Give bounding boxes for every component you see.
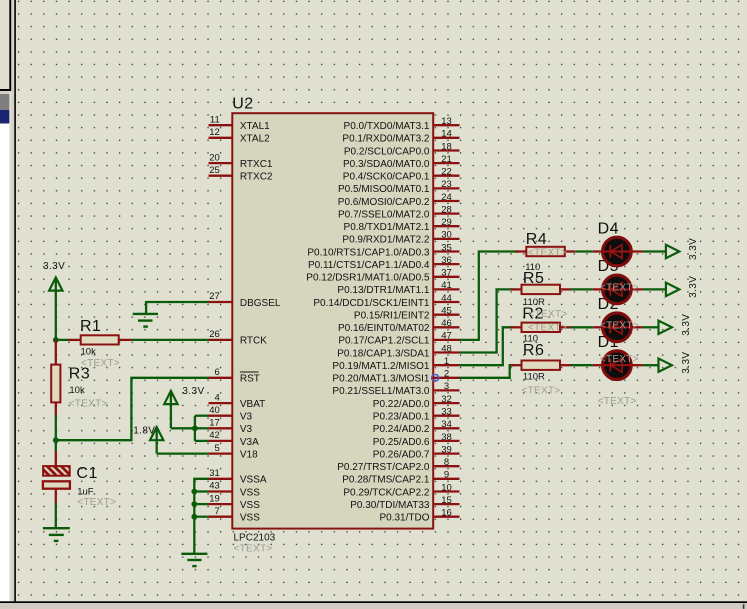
svg-text:28: 28	[441, 204, 452, 215]
pin 42 (V3A) stub	[209, 440, 233, 442]
window chrome: resize tick	[743, 604, 745, 609]
svg-text:P0.8/TXD1/MAT2.1: P0.8/TXD1/MAT2.1	[344, 222, 430, 233]
LED D2	[593, 326, 602, 328]
wire pin to R6	[460, 365, 514, 378]
svg-text:36: 36	[441, 255, 452, 266]
svg-text:47: 47	[441, 331, 452, 342]
wire pin to R2	[460, 327, 514, 365]
svg-text:P0.10/RTS1/CAP1.0/AD0.3: P0.10/RTS1/CAP1.0/AD0.3	[307, 247, 430, 258]
pin 37 (P0.12/DSR1/MAT1.0/AD0.5) stub	[433, 276, 459, 278]
node marker (blue) on pin 2	[432, 375, 439, 382]
svg-text:46: 46	[441, 318, 452, 329]
svg-text:<TEXT>: <TEXT>	[234, 544, 273, 555]
svg-text:19: 19	[209, 493, 220, 504]
svg-text:R3: R3	[69, 365, 90, 382]
svg-text:V18: V18	[240, 449, 258, 460]
svg-text:XTAL2: XTAL2	[240, 134, 270, 145]
svg-text:U2: U2	[232, 95, 253, 112]
svg-text:P0.25/AD0.6: P0.25/AD0.6	[373, 437, 430, 448]
wire LED to power	[643, 288, 666, 290]
window chrome: bottom bar	[0, 601, 747, 603]
svg-text:23: 23	[441, 179, 452, 190]
pin 12 (XTAL2) stub	[209, 137, 233, 139]
node junction VSS 19	[191, 501, 197, 507]
resistor R3	[55, 340, 57, 365]
svg-text:29: 29	[441, 217, 452, 228]
svg-text:P0.7/SSEL0/MAT2.0: P0.7/SSEL0/MAT2.0	[338, 209, 430, 220]
window chrome: left panel	[0, 0, 11, 89]
svg-text:P0.28/TMS/CAP2.1: P0.28/TMS/CAP2.1	[342, 475, 430, 486]
node junction R1/R3/3.3V	[53, 337, 59, 343]
svg-text:3.3V: 3.3V	[681, 314, 692, 336]
svg-text:<TEXT>: <TEXT>	[69, 399, 108, 410]
pin 8 (P0.27/TRST/CAP2.0) stub	[433, 465, 459, 467]
svg-text:R6: R6	[523, 342, 544, 359]
svg-text:44: 44	[441, 293, 452, 304]
svg-text:VBAT: VBAT	[240, 399, 265, 410]
svg-text:P0.20/MAT1.3/MOSI1: P0.20/MAT1.3/MOSI1	[332, 374, 430, 385]
svg-text:40: 40	[209, 405, 220, 416]
power +3.3V terminal (arrow)	[666, 245, 679, 258]
IC U2 LPC2103 body	[232, 113, 433, 528]
pin 39 (P0.26/AD0.7) stub	[433, 452, 459, 454]
pin 26 (RTCK) stub	[209, 339, 233, 341]
svg-text:<TEXT>: <TEXT>	[529, 309, 568, 320]
svg-text:V3A: V3A	[240, 437, 259, 448]
svg-text:42: 42	[209, 430, 220, 441]
LED D4	[593, 250, 602, 252]
svg-text:RTCK: RTCK	[240, 336, 267, 347]
pin 30 (P0.9/RXD1/MAT2.2) stub	[433, 238, 459, 240]
svg-text:3.3V: 3.3V	[688, 238, 699, 260]
svg-text:P0.6/MOSI0/CAP0.2: P0.6/MOSI0/CAP0.2	[338, 197, 430, 208]
svg-text:<TEXT>: <TEXT>	[600, 283, 639, 294]
resistor R2	[511, 326, 522, 328]
svg-text:DBGSEL: DBGSEL	[240, 298, 281, 309]
svg-text:1: 1	[444, 356, 449, 367]
pin 20 (RTXC1) stub	[209, 162, 233, 164]
resistor R1	[56, 339, 68, 341]
svg-text:P0.24/AD0.2: P0.24/AD0.2	[373, 424, 430, 435]
wire R4 to LED	[575, 250, 593, 252]
pin 23 (P0.5/MISO0/MAT0.1) stub	[433, 187, 459, 189]
pin 40 (V3) stub	[209, 415, 233, 417]
resistor R6	[511, 364, 522, 366]
svg-text:22: 22	[441, 167, 452, 178]
pin 25 (RTXC2) stub	[209, 175, 233, 177]
svg-text:27: 27	[209, 291, 220, 302]
LED D5	[593, 288, 602, 290]
svg-text:45: 45	[441, 306, 452, 317]
pin 32 (P0.22/AD0.0) stub	[433, 402, 459, 404]
pin 21 (P0.3/SDA0/MAT0.0) stub	[433, 162, 459, 164]
svg-text:41: 41	[441, 280, 452, 291]
svg-text:15: 15	[441, 495, 452, 506]
node junction V3 rail	[192, 425, 198, 431]
pin 13 (P0.0/TXD0/MAT3.1) stub	[433, 124, 459, 126]
pin 22 (P0.4/SCK0/CAP0.1) stub	[433, 175, 459, 177]
svg-text:VSS: VSS	[240, 513, 260, 524]
svg-text:<TEXT>: <TEXT>	[522, 385, 561, 396]
window chrome: white strip	[0, 124, 9, 602]
svg-text:20: 20	[209, 152, 220, 163]
pin 45 (P0.15/RI1/EINT2) stub	[433, 314, 459, 316]
svg-text:V3: V3	[240, 424, 253, 435]
svg-text:<TEXT>: <TEXT>	[528, 323, 567, 334]
ground (VSS)	[181, 553, 207, 555]
svg-text:13: 13	[441, 116, 452, 127]
pin 10 (P0.29/TCK/CAP2.2) stub	[433, 490, 459, 492]
capacitor C1	[55, 440, 57, 451]
pin 4 (VBAT) stub	[209, 402, 233, 404]
svg-text:21: 21	[441, 154, 452, 165]
wire VSS rail	[194, 479, 208, 554]
svg-text:LPC2103: LPC2103	[234, 533, 276, 544]
pin 6 (RST) stub	[209, 377, 233, 379]
svg-text:18: 18	[441, 141, 452, 152]
svg-text:P0.12/DSR1/MAT1.0/AD0.5: P0.12/DSR1/MAT1.0/AD0.5	[306, 273, 430, 284]
wire DBGSEL to ground	[146, 302, 208, 314]
svg-text:P0.30/TDI/MAT33: P0.30/TDI/MAT33	[350, 500, 430, 511]
resistor R5	[511, 288, 522, 290]
window chrome: navy block	[0, 110, 9, 124]
svg-text:P0.22/AD0.0: P0.22/AD0.0	[373, 399, 430, 410]
svg-text:RTXC1: RTXC1	[240, 159, 273, 170]
svg-text:6: 6	[215, 367, 220, 378]
svg-text:<TEXT>: <TEXT>	[528, 247, 567, 258]
svg-text:V3: V3	[240, 412, 253, 423]
pin 43 (VSS) stub	[209, 490, 233, 492]
pin 47 (P0.17/CAP1.2/SCL1) stub	[433, 339, 459, 341]
svg-text:37: 37	[441, 268, 452, 279]
svg-text:P0.14/DCD1/SCK1/EINT1: P0.14/DCD1/SCK1/EINT1	[313, 298, 430, 309]
wire R2 to LED	[571, 326, 593, 328]
pin 3 (P0.21/SSEL1/MAT3.0) stub	[433, 389, 459, 391]
pin 19 (VSS) stub	[209, 503, 233, 505]
power +3.3V terminal (arrow)	[666, 283, 679, 296]
pin 36 (P0.11/CTS1/CAP1.1/AD0.4) stub	[433, 263, 459, 265]
svg-text:14: 14	[441, 129, 452, 140]
wire LED to power	[643, 250, 666, 252]
svg-text:RTXC2: RTXC2	[240, 172, 273, 183]
wire LED to power	[643, 364, 659, 366]
svg-text:3.3V: 3.3V	[182, 386, 204, 397]
svg-text:48: 48	[441, 343, 452, 354]
svg-text:17: 17	[209, 418, 220, 429]
svg-text:VSS: VSS	[240, 487, 260, 498]
svg-text:P0.3/SDA0/MAT0.0: P0.3/SDA0/MAT0.0	[343, 159, 430, 170]
pin 11 (XTAL1) stub	[209, 124, 233, 126]
node junction VSS 7	[191, 514, 197, 520]
svg-text:P0.13/DTR1/MAT1.1: P0.13/DTR1/MAT1.1	[337, 285, 430, 296]
svg-text:P0.18/CAP1.3/SDA1: P0.18/CAP1.3/SDA1	[337, 348, 430, 359]
svg-text:8: 8	[444, 457, 449, 468]
svg-text:33: 33	[441, 407, 452, 418]
svg-text:P0.11/CTS1/CAP1.1/AD0.4: P0.11/CTS1/CAP1.1/AD0.4	[308, 260, 430, 271]
svg-text:3.3V: 3.3V	[681, 352, 692, 374]
svg-text:31: 31	[209, 468, 220, 479]
svg-text:VSSA: VSSA	[240, 475, 267, 486]
svg-text:12: 12	[209, 127, 220, 138]
svg-text:R4: R4	[526, 231, 547, 248]
pin 41 (P0.13/DTR1/MAT1.1) stub	[433, 288, 459, 290]
power +3.3V terminal (arrow)	[659, 359, 672, 372]
pin 31 (VSSA) stub	[209, 478, 233, 480]
pin 7 (VSS) stub	[209, 516, 233, 518]
pin 5 (V18) stub	[209, 452, 233, 454]
svg-text:P0.27/TRST/CAP2.0: P0.27/TRST/CAP2.0	[337, 462, 430, 473]
svg-text:30: 30	[441, 230, 452, 241]
wire LED to power	[643, 326, 659, 328]
svg-text:5: 5	[215, 443, 220, 454]
svg-text:32: 32	[441, 394, 452, 405]
svg-text:38: 38	[441, 432, 452, 443]
svg-text:C1: C1	[76, 465, 97, 482]
window chrome: divider strip	[11, 0, 14, 601]
svg-text:<TEXT>: <TEXT>	[598, 396, 637, 407]
wire pin to R4	[460, 252, 519, 340]
svg-text:P0.23/AD0.1: P0.23/AD0.1	[373, 412, 430, 423]
pin 18 (P0.2/SCL0/CAP0.0) stub	[433, 149, 459, 151]
svg-text:<TEXT>: <TEXT>	[600, 354, 639, 365]
svg-text:P0.15/RI1/EINT2: P0.15/RI1/EINT2	[354, 311, 430, 322]
svg-text:P0.4/SCK0/CAP0.1: P0.4/SCK0/CAP0.1	[343, 172, 430, 183]
svg-text:4: 4	[215, 392, 220, 403]
wire R6 to LED	[571, 364, 593, 366]
pin 38 (P0.25/AD0.6) stub	[433, 440, 459, 442]
svg-text:16: 16	[441, 508, 452, 519]
svg-text:P0.5/MISO0/MAT0.1: P0.5/MISO0/MAT0.1	[338, 184, 430, 195]
svg-text:P0.31/TDO: P0.31/TDO	[379, 513, 429, 524]
svg-text:VSS: VSS	[240, 500, 260, 511]
svg-text:39: 39	[441, 444, 452, 455]
svg-text:RST: RST	[240, 374, 260, 385]
svg-text:9: 9	[444, 470, 449, 481]
pin 14 (P0.1/RXD0/MAT3.2) stub	[433, 137, 459, 139]
svg-text:D4: D4	[598, 220, 619, 237]
pin 2 (P0.20/MAT1.3/MOSI1) stub	[433, 377, 459, 379]
svg-text:10k: 10k	[69, 385, 85, 396]
svg-text:35: 35	[441, 242, 452, 253]
svg-text:24: 24	[441, 192, 452, 203]
svg-text:P0.21/SSEL1/MAT3.0: P0.21/SSEL1/MAT3.0	[332, 386, 430, 397]
pin 16 (P0.31/TDO) stub	[433, 516, 459, 518]
node junction R3/C1/RST	[53, 437, 59, 443]
svg-text:10: 10	[441, 482, 452, 493]
pin 46 (P0.16/EINT0/MAT02) stub	[433, 326, 459, 328]
node junction VSS 43	[191, 489, 197, 495]
svg-text:P0.0/TXD0/MAT3.1: P0.0/TXD0/MAT3.1	[344, 121, 430, 132]
svg-text:P0.17/CAP1.2/SCL1: P0.17/CAP1.2/SCL1	[338, 336, 430, 347]
pin 9 (P0.28/TMS/CAP2.1) stub	[433, 478, 459, 480]
wire 1.8V to V18	[157, 452, 209, 454]
svg-text:25: 25	[209, 165, 220, 176]
svg-text:10k: 10k	[81, 347, 97, 358]
wire R1 to RTCK	[132, 339, 209, 341]
wire V3 rail	[171, 427, 195, 429]
svg-text:R1: R1	[80, 318, 101, 335]
svg-text:R5: R5	[523, 270, 544, 287]
resistor R4	[515, 250, 526, 252]
svg-text:7: 7	[215, 506, 220, 517]
svg-text:34: 34	[441, 419, 452, 430]
svg-text:2: 2	[444, 369, 449, 380]
svg-text:3.3V: 3.3V	[688, 276, 699, 298]
svg-text:P0.19/MAT1.2/MISO1: P0.19/MAT1.2/MISO1	[332, 361, 430, 372]
pin 33 (P0.23/AD0.1) stub	[433, 415, 459, 417]
svg-text:P0.1/RXD0/MAT3.2: P0.1/RXD0/MAT3.2	[342, 134, 430, 145]
svg-text:110R: 110R	[523, 372, 545, 383]
pin 24 (P0.6/MOSI0/CAP0.2) stub	[433, 200, 459, 202]
svg-text:P0.16/EINT0/MAT02: P0.16/EINT0/MAT02	[338, 323, 430, 334]
window chrome: grey block	[0, 94, 9, 110]
power +3.3V terminal (arrow)	[659, 321, 672, 334]
svg-text:<TEXT>: <TEXT>	[600, 321, 639, 332]
svg-text:P0.26/AD0.7: P0.26/AD0.7	[373, 449, 430, 460]
svg-text:<TEXT>: <TEXT>	[77, 497, 116, 508]
ground (DBGSEL)	[133, 313, 158, 315]
pin 29 (P0.8/TXD1/MAT2.1) stub	[433, 225, 459, 227]
svg-text:3.3V: 3.3V	[43, 261, 65, 272]
pin 48 (P0.18/CAP1.3/SDA1) stub	[433, 351, 459, 353]
ground (below C1)	[43, 527, 70, 529]
svg-text:43: 43	[209, 481, 220, 492]
pin 44 (P0.14/DCD1/SCK1/EINT1) stub	[433, 301, 459, 303]
wire pin to R5	[460, 289, 514, 352]
pin 34 (P0.24/AD0.2) stub	[433, 427, 459, 429]
pin 28 (P0.7/SSEL0/MAT2.0) stub	[433, 212, 459, 214]
svg-text:XTAL1: XTAL1	[240, 121, 270, 132]
svg-text:3: 3	[444, 381, 449, 392]
pin 35 (P0.10/RTS1/CAP1.0/AD0.3) stub	[433, 250, 459, 252]
wire RST to R3/C1 junction	[58, 378, 209, 440]
LED D1	[593, 364, 602, 366]
svg-text:11: 11	[210, 114, 220, 125]
wire R5 to LED	[571, 288, 593, 290]
pin 17 (V3) stub	[209, 427, 233, 429]
svg-text:P0.2/SCL0/CAP0.0: P0.2/SCL0/CAP0.0	[344, 146, 430, 157]
pin 15 (P0.30/TDI/MAT33) stub	[433, 503, 459, 505]
svg-text:P0.29/TCK/CAP2.2: P0.29/TCK/CAP2.2	[343, 487, 430, 498]
svg-text:P0.9/RXD1/MAT2.2: P0.9/RXD1/MAT2.2	[342, 235, 430, 246]
pin 27 (DBGSEL) stub	[209, 301, 233, 303]
svg-text:26: 26	[209, 329, 220, 340]
pin 1 (P0.19/MAT1.2/MISO1) stub	[433, 364, 459, 366]
